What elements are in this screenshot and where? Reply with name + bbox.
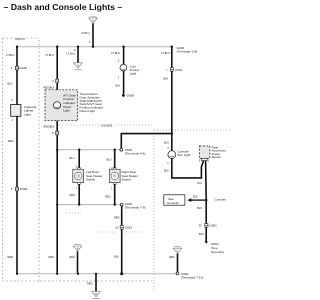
svg-text:BLK: BLK (197, 206, 202, 210)
svg-text:RED: RED (169, 255, 175, 259)
svg-text:LT BLU: LT BLU (45, 53, 54, 57)
svg-text:BLK: BLK (164, 169, 169, 173)
svg-text:RED: RED (105, 194, 111, 198)
svg-text:BLK: BLK (164, 77, 169, 81)
svg-text:BLK: BLK (114, 254, 119, 258)
svg-text:C651: C651 (125, 226, 133, 230)
svg-text:– Dash and Console Lights –: – Dash and Console Lights – (4, 2, 123, 12)
svg-text:BLU: BLU (70, 156, 75, 160)
svg-text:(Terminals 7-9): (Terminals 7-9) (125, 205, 146, 209)
svg-text:RED: RED (49, 255, 55, 259)
svg-text:BLK: BLK (199, 232, 204, 236)
svg-text:(Terminals 7-12): (Terminals 7-12) (181, 275, 203, 279)
svg-text:Light: Light (63, 109, 70, 113)
svg-text:LT BLU: LT BLU (161, 51, 170, 55)
svg-text:Socket: Socket (212, 155, 222, 159)
svg-text:LT BLU: LT BLU (67, 52, 76, 56)
svg-text:Light: Light (24, 113, 31, 117)
svg-text:Canada: Canada (101, 123, 113, 127)
svg-text:Switch: Switch (86, 178, 95, 182)
svg-text:RED: RED (87, 282, 93, 286)
svg-text:Switch: Switch (122, 178, 131, 182)
svg-text:LT BLU: LT BLU (81, 31, 90, 35)
svg-text:Grounds): Grounds) (211, 250, 224, 254)
svg-text:C651: C651 (175, 68, 183, 72)
svg-text:(Terminals 4-6): (Terminals 4-6) (125, 152, 146, 156)
svg-text:Panel Light: Panel Light (80, 109, 96, 113)
svg-text:G926: G926 (127, 94, 135, 98)
svg-text:C: C (177, 250, 179, 253)
svg-text:C651: C651 (210, 224, 218, 228)
svg-text:RED/BLK: RED/BLK (44, 85, 55, 89)
svg-text:LT BLU: LT BLU (111, 51, 120, 55)
svg-text:BLU: BLU (107, 158, 112, 162)
svg-text:C928: C928 (19, 66, 27, 70)
svg-text:RED/BLK: RED/BLK (44, 124, 55, 128)
svg-text:BLK: BLK (116, 84, 121, 88)
svg-text:RED: RED (69, 255, 75, 259)
svg-text:BLK: BLK (193, 195, 198, 199)
svg-text:C926: C926 (20, 187, 28, 191)
svg-text:BLU: BLU (164, 141, 169, 145)
svg-text:Box Light: Box Light (178, 153, 191, 157)
svg-text:BLK: BLK (197, 181, 202, 185)
svg-text:Light: Light (130, 71, 137, 75)
svg-text:RED: RED (70, 193, 76, 197)
svg-text:LT BLU: LT BLU (6, 53, 15, 57)
svg-text:RED: RED (114, 215, 120, 219)
svg-text:Console: Console (215, 197, 227, 201)
svg-text:RED: RED (8, 255, 14, 259)
svg-text:RED: RED (8, 139, 14, 143)
svg-text:Interior: Interior (15, 37, 26, 41)
svg-text:Grounds: Grounds (167, 201, 179, 205)
svg-text:BLU: BLU (8, 82, 13, 86)
svg-text:(Terminals 1-8): (Terminals 1-8) (177, 49, 198, 53)
